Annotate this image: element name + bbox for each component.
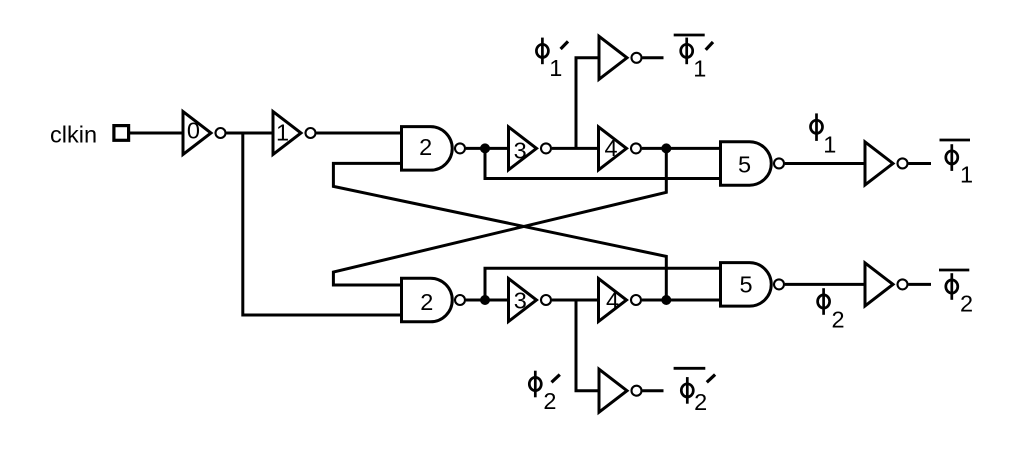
svg-text:5: 5 [738, 151, 751, 177]
svg-text:1: 1 [549, 55, 562, 81]
wire inverter 3 output to inverter 4 (top) [552, 147, 599, 150]
wire inverter 1 output to top NAND 2 upper input [316, 132, 401, 135]
NAND gate 2 (bottom) [402, 278, 466, 322]
svg-text:1: 1 [693, 55, 706, 81]
junction dot after inverter 4 (top) [661, 143, 671, 153]
wire phi1-bar stub [908, 162, 931, 165]
inverter 0 [183, 112, 226, 155]
svg-text:3: 3 [514, 287, 527, 313]
svg-text:4: 4 [606, 287, 619, 313]
net label phi1-bar [940, 140, 974, 187]
NAND gate 5 (bottom) [721, 263, 785, 307]
wire inverter 0 output to inverter 1 [226, 132, 273, 135]
output inverter for phi2-bar [865, 263, 908, 306]
wire inverter 3 output to inverter 4 (bottom) [552, 299, 599, 302]
wire bottom NAND 2 output to inverter 3 (bottom) [466, 299, 509, 302]
net label phi2-bar [939, 270, 973, 316]
wire cross-coupling A: top NAND 2 lower input to bottom node [333, 163, 666, 300]
svg-text:2: 2 [960, 290, 973, 316]
svg-text:1: 1 [823, 132, 836, 158]
svg-text:1: 1 [276, 120, 289, 146]
wire top NAND 5 output to phi1 output inverter [785, 162, 865, 165]
wire phi1-prime-bar stub [642, 56, 663, 59]
wire phi2-prime tap down to prime inverter [576, 300, 599, 391]
svg-text:1: 1 [960, 161, 973, 187]
wire inverter 4 output to top NAND 5 upper input [642, 147, 721, 150]
svg-text:2: 2 [420, 289, 433, 315]
wire phi1-prime tap up to prime inverter [576, 58, 599, 149]
inverter 3 (bottom) [509, 279, 552, 322]
net label phi2-prime [529, 371, 560, 414]
input pad clkin [114, 126, 129, 141]
svg-text:3: 3 [514, 137, 527, 163]
net label clkin [50, 122, 97, 148]
wire clkin pad to inverter 0 [130, 132, 183, 135]
inverter for phi2-prime-bar [599, 369, 642, 412]
svg-text:clkin: clkin [50, 122, 97, 148]
NAND gate 5 (top) [721, 142, 785, 186]
svg-text:4: 4 [604, 135, 617, 161]
wire bottom NAND 5 output to phi2 output inverter [785, 283, 865, 286]
junction dot after bottom NAND 2 [480, 295, 490, 305]
NAND gate 2 (top) [402, 127, 466, 170]
inverter 1 [273, 112, 316, 155]
wire phi2-prime-bar stub [642, 389, 663, 392]
inverter 4 (top) [599, 127, 642, 170]
node A: T-junction and wire down to bottom NAND 2 input [243, 133, 402, 315]
net label phi2 [818, 288, 845, 332]
svg-text:2: 2 [419, 134, 432, 160]
wire bottom feedback: node after bottom NAND 2 up and right to bottom NAND 5 upper input [485, 268, 721, 300]
wire cross-coupling B: top node down to bottom NAND 2 upper input [333, 148, 666, 285]
junction dot after top NAND 2 [480, 143, 490, 153]
inverter 3 (top) [509, 127, 552, 170]
wire top NAND 2 output to inverter 3 [466, 147, 509, 150]
wire phi2-bar stub [908, 283, 931, 286]
net label phi1-prime [536, 38, 568, 82]
svg-text:2: 2 [694, 389, 707, 415]
svg-text:0: 0 [187, 118, 200, 144]
junction dot after inverter 4 (bottom) [661, 295, 671, 305]
output inverter for phi1-bar [865, 142, 908, 185]
net label phi2-prime-bar [674, 368, 716, 415]
wire top feedback: node after NAND 2 down and right to NAND 5 lower input [485, 148, 721, 178]
inverter for phi1-prime-bar [599, 36, 642, 79]
wire inverter 4 output to bottom NAND 5 lower input [642, 299, 721, 302]
svg-text:2: 2 [831, 307, 844, 333]
inverter 4 (bottom) [599, 279, 642, 322]
svg-text:2: 2 [543, 388, 556, 414]
net label phi1-prime-bar [674, 35, 713, 81]
net label phi1 [811, 113, 837, 157]
svg-text:5: 5 [739, 272, 752, 298]
